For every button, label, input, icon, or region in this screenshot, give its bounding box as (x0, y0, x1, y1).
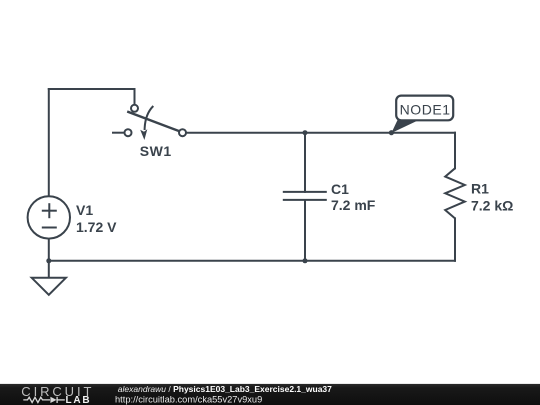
capacitor C1 bottom wire (304, 200, 306, 261)
wire V1 bottom (48, 239, 50, 261)
svg-text:R1: R1 (471, 180, 489, 196)
junction dot C1 bottom (303, 258, 308, 263)
wire right vertical to resistor (454, 133, 456, 169)
resistor R1 (445, 168, 465, 218)
wire bottom horizontal (49, 260, 455, 262)
switch SW1 (112, 105, 186, 140)
node NODE1 flag (389, 96, 453, 136)
svg-text:NODE1: NODE1 (400, 101, 451, 117)
svg-text:1.72 V: 1.72 V (76, 219, 117, 235)
svg-text:LAB: LAB (66, 395, 92, 405)
ground (32, 261, 66, 295)
svg-text:V1: V1 (76, 202, 93, 218)
wire top-left vertical (48, 89, 50, 196)
svg-text:C1: C1 (331, 181, 349, 197)
svg-text:http://circuitlab.com/cka55v27: http://circuitlab.com/cka55v27v9xu9 (115, 394, 262, 404)
logo circuit symbol (23, 397, 65, 403)
junction dot ground (46, 258, 51, 263)
wire top horizontal to switch (49, 89, 135, 105)
svg-text:7.2 mF: 7.2 mF (331, 197, 376, 213)
svg-text:alexandrawu / Physics1E03_Lab3: alexandrawu / Physics1E03_Lab3_Exercise2… (118, 384, 332, 394)
capacitor C1 top wire (304, 133, 306, 192)
voltage source V1 (28, 196, 70, 238)
junction dot C1 top (303, 130, 308, 135)
svg-text:7.2 kΩ: 7.2 kΩ (471, 197, 513, 213)
wire switch to node corner (186, 132, 455, 134)
svg-text:SW1: SW1 (140, 143, 172, 159)
wire resistor to bottom corner (454, 218, 456, 260)
footer bar (0, 384, 540, 405)
capacitor C1 (283, 192, 327, 200)
